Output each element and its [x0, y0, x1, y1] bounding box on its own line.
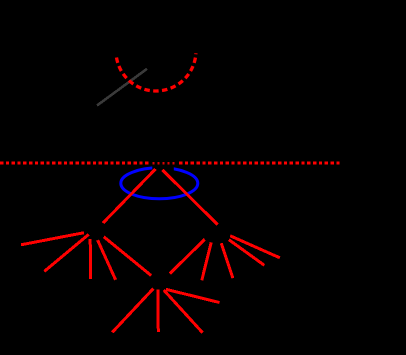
left hub: steep edge down-right [98, 240, 116, 280]
right hub: edge to right leaf (steeper) [229, 240, 264, 266]
blue ellipse around root [121, 168, 198, 199]
edge root to right hub [163, 170, 218, 225]
right hub: edge down-left [202, 242, 211, 280]
dashed horizontal boundary line (right segment) [179, 162, 339, 165]
dashed horizontal boundary line (left segment) [0, 162, 148, 165]
bottom hub: edge down-left [112, 289, 153, 333]
left hub: vertical edge down [89, 239, 92, 279]
edge right hub to bottom hub [170, 239, 205, 273]
bottom hub: shallow edge right [166, 289, 220, 302]
gray radius/chord line [97, 69, 147, 106]
dashed red circle (bottom arc) [117, 53, 196, 91]
bottom hub: edge down-right [164, 290, 203, 333]
left hub: edge to lower-left leaf [44, 234, 88, 271]
edge root to left hub [103, 169, 156, 223]
edge left hub to bottom hub [104, 237, 151, 276]
right hub: edge to right leaf (shallow) [230, 236, 280, 258]
bottom hub: vertical edge down [156, 289, 160, 332]
black cover over ellipse top (root node area) [152, 165, 174, 172]
right hub: edge down-right [221, 243, 233, 278]
fine dotted segment at root [152, 162, 175, 164]
left hub: edge to far-left leaf [21, 233, 84, 245]
